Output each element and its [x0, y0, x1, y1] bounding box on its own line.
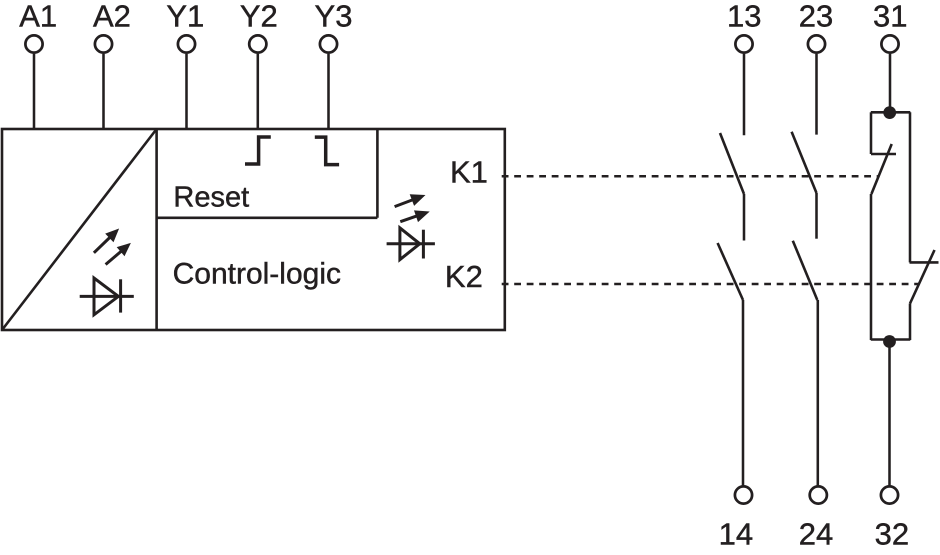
svg-text:23: 23: [799, 0, 833, 34]
svg-text:A2: A2: [93, 0, 131, 34]
svg-text:Reset: Reset: [173, 181, 249, 213]
svg-text:K2: K2: [445, 259, 483, 294]
svg-text:A1: A1: [19, 0, 57, 34]
svg-text:K1: K1: [450, 154, 488, 189]
svg-text:Y1: Y1: [166, 0, 204, 34]
svg-text:Y2: Y2: [240, 0, 278, 34]
svg-text:Control-logic: Control-logic: [173, 258, 341, 291]
svg-text:32: 32: [875, 516, 909, 551]
svg-text:14: 14: [719, 516, 753, 551]
svg-text:24: 24: [799, 516, 833, 551]
svg-text:Y3: Y3: [315, 0, 353, 34]
svg-text:31: 31: [873, 0, 907, 34]
svg-text:13: 13: [727, 0, 761, 34]
